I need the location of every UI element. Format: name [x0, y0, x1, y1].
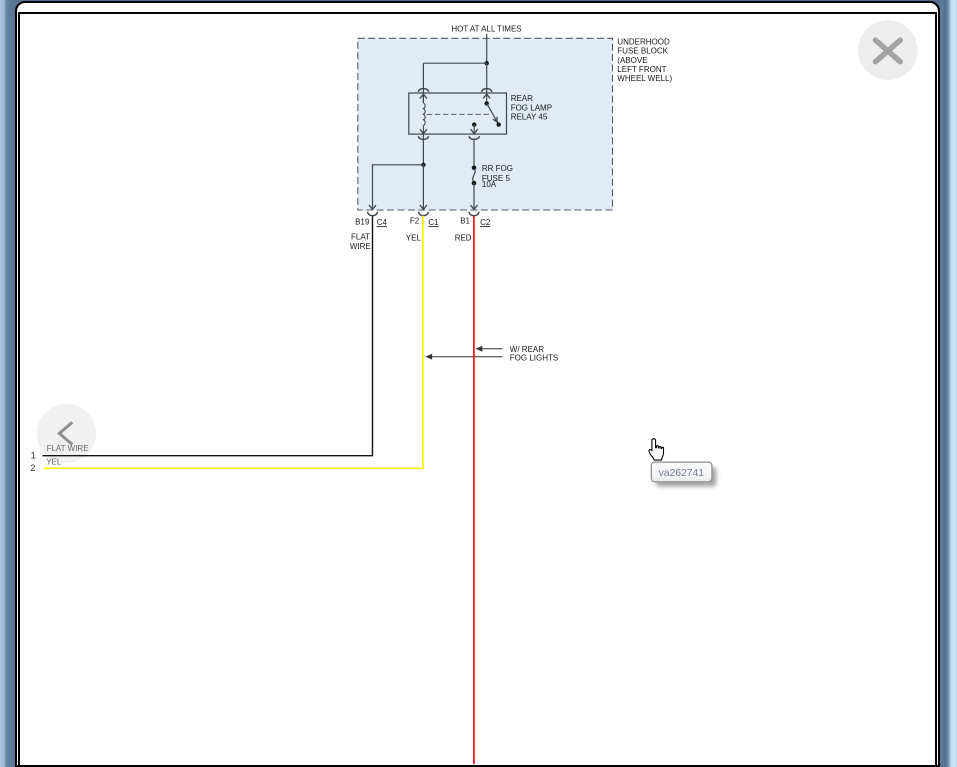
- svg-text:FUSE BLOCK: FUSE BLOCK: [617, 47, 668, 56]
- close X icon: [876, 40, 901, 62]
- red RED wire run: down to page bottom: [473, 216, 475, 764]
- svg-text:FLAT WIRE: FLAT WIRE: [47, 444, 89, 453]
- wire branch to B19: [373, 165, 424, 210]
- svg-text:F2: F2: [410, 217, 420, 226]
- svg-text:REAR: REAR: [511, 94, 533, 103]
- relay coil windings: [423, 103, 425, 125]
- relay 45 box outline: [409, 93, 507, 134]
- female connector arc above relay pin 1: [418, 89, 428, 92]
- female connector arc C4: [368, 212, 378, 216]
- svg-text:va262741: va262741: [659, 467, 705, 479]
- svg-text:B19: B19: [355, 217, 370, 226]
- wire from HOT AT ALL TIMES down to node: [486, 34, 488, 63]
- mouse hand cursor: [649, 439, 664, 460]
- svg-text:YEL: YEL: [406, 234, 422, 243]
- svg-text:HOT AT ALL TIMES: HOT AT ALL TIMES: [451, 25, 521, 34]
- fuse bottom terminal dot: [472, 181, 477, 186]
- F2 male arrow (down): [420, 205, 427, 209]
- node junction dot top: [485, 61, 489, 65]
- leader arrow to yellow wire: [426, 356, 502, 358]
- leader arrowhead red: [477, 346, 483, 351]
- female connector arc C2: [469, 212, 479, 216]
- wire fuse to B1: [473, 183, 475, 209]
- svg-text:C1: C1: [428, 218, 439, 227]
- black FLAT WIRE run: down then left: [43, 216, 373, 456]
- svg-text:FOG LIGHTS: FOG LIGHTS: [510, 353, 558, 362]
- fuse top terminal dot: [472, 166, 477, 171]
- svg-text:WIRE: WIRE: [350, 242, 371, 251]
- svg-text:RELAY 45: RELAY 45: [511, 112, 548, 121]
- leader arrowhead yellow: [427, 354, 433, 359]
- wire arrow to switch common: [486, 94, 488, 103]
- relay actuating dashed line: [427, 113, 490, 115]
- female connector arc C1: [418, 212, 428, 216]
- wire relay output to fuse: [473, 140, 475, 168]
- svg-text:FLAT: FLAT: [351, 233, 370, 242]
- svg-text:FOG LAMP: FOG LAMP: [511, 103, 552, 112]
- wire arrow to coil: [422, 94, 424, 103]
- svg-text:YEL: YEL: [46, 458, 62, 467]
- svg-text:WHEEL WELL): WHEEL WELL): [617, 74, 672, 83]
- svg-text:1: 1: [31, 451, 36, 461]
- relay coil pin male arrow (up): [420, 94, 427, 98]
- leader arrow to red wire: [477, 348, 503, 350]
- wire coil return to F2: [422, 165, 424, 210]
- underhood fuse block dashed box: [358, 38, 613, 210]
- B19 male arrow (down): [369, 205, 376, 209]
- wire right branch down to relay switch: [486, 63, 488, 93]
- relay switch blade end dot: [497, 122, 501, 126]
- svg-text:UNDERHOOD: UNDERHOOD: [617, 38, 670, 47]
- close button circle: [858, 20, 918, 80]
- relay switch blade: [487, 103, 499, 124]
- svg-text:C2: C2: [480, 218, 491, 227]
- node junction dot coil return: [421, 163, 425, 167]
- relay switch common pin male arrow (up): [483, 94, 490, 98]
- B1 male arrow (down): [471, 205, 478, 209]
- RR FOG fuse 5 element: [473, 169, 475, 182]
- female connector arc below relay pin 4: [469, 136, 479, 139]
- wire node to left branch: [423, 62, 486, 64]
- svg-text:RR FOG: RR FOG: [482, 164, 513, 173]
- yellow YEL wire run: down then left: [44, 216, 423, 468]
- relay switch blade arrowhead: [493, 117, 497, 122]
- wire left branch down to relay coil: [422, 63, 424, 103]
- female connector arc above relay pin 2: [482, 89, 492, 92]
- svg-text:(ABOVE: (ABOVE: [617, 56, 647, 65]
- female connector arc below relay pin 3: [418, 136, 428, 139]
- relay coil bottom male arrow (down): [420, 129, 427, 133]
- svg-text:C4: C4: [377, 218, 388, 227]
- relay output male arrow (down): [471, 129, 478, 133]
- back chevron icon: [59, 422, 72, 444]
- svg-text:2: 2: [30, 463, 35, 473]
- back chevron button circle: [37, 404, 96, 463]
- relay switch common terminal dot: [485, 101, 489, 105]
- svg-text:B1: B1: [460, 217, 470, 226]
- svg-text:LEFT FRONT: LEFT FRONT: [617, 65, 666, 74]
- wire coil to relay bottom: [422, 125, 424, 133]
- wire switch output to relay bottom: [473, 125, 475, 134]
- relay switch output terminal dot: [472, 122, 476, 126]
- svg-text:RED: RED: [455, 234, 472, 243]
- svg-text:10A: 10A: [482, 180, 497, 189]
- wire relay coil return down: [422, 134, 424, 165]
